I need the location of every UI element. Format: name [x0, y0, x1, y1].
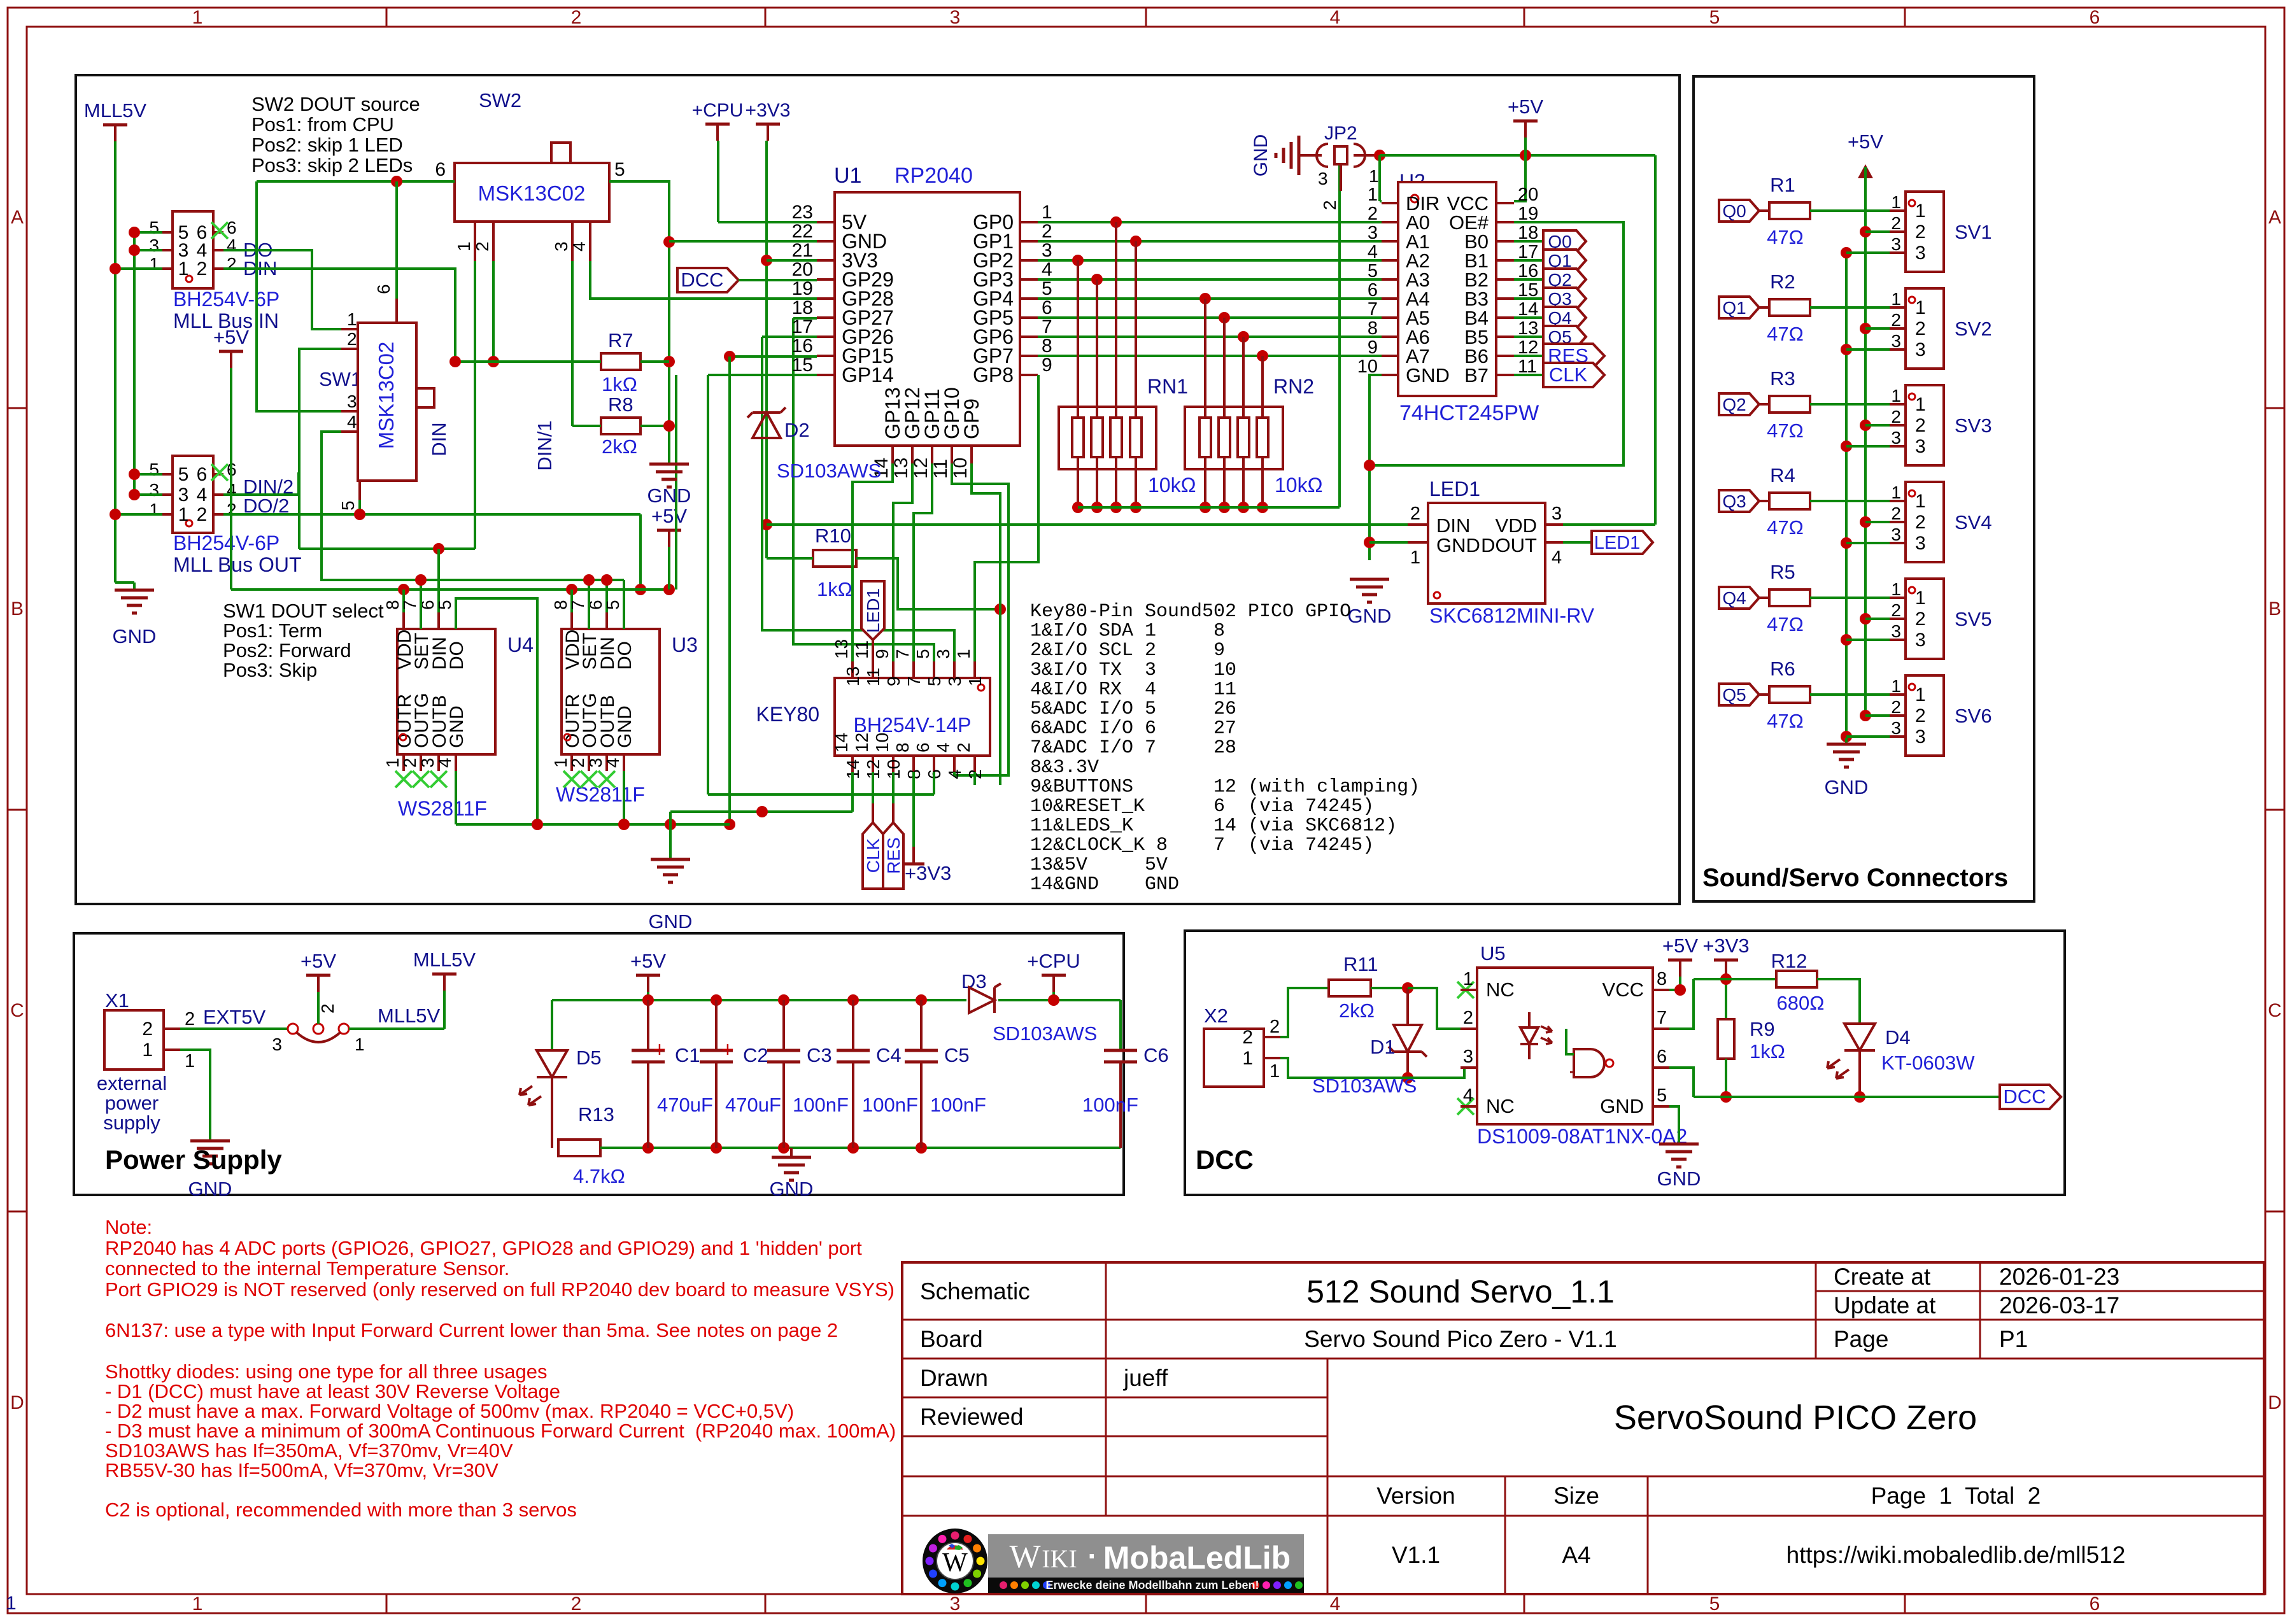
svg-text:1: 1: [1891, 579, 1901, 599]
svg-text:RES: RES: [884, 837, 903, 874]
svg-text:1: 1: [1891, 192, 1901, 212]
svg-text:1: 1: [1368, 185, 1378, 205]
svg-text:5: 5: [1657, 1085, 1667, 1106]
svg-text:R5: R5: [1770, 561, 1795, 583]
svg-text:GND: GND: [647, 484, 691, 507]
svg-text:1: 1: [192, 1593, 203, 1614]
svg-text:4: 4: [347, 412, 357, 432]
svg-text:3: 3: [950, 7, 961, 28]
svg-text:Pos1: from CPU: Pos1: from CPU: [251, 113, 394, 136]
svg-text:5: 5: [149, 460, 159, 479]
svg-text:21: 21: [792, 240, 813, 261]
svg-text:22: 22: [792, 221, 813, 242]
svg-text:Q0: Q0: [1722, 201, 1746, 221]
svg-text:SD103AWS has If=350mA, Vf=370m: SD103AWS has If=350mA, Vf=370mv, Vr=40V: [105, 1439, 513, 1462]
svg-text:47Ω: 47Ω: [1767, 226, 1804, 248]
svg-text:3: 3: [1891, 525, 1901, 544]
svg-text:R6: R6: [1770, 658, 1795, 680]
svg-text:2: 2: [1891, 213, 1901, 233]
svg-text:Schematic: Schematic: [920, 1278, 1030, 1304]
svg-text:3: 3: [1891, 621, 1901, 641]
svg-text:8: 8: [1368, 318, 1378, 339]
svg-text:ServoSound PICO Zero: ServoSound PICO Zero: [1614, 1399, 1977, 1437]
svg-text:5: 5: [1368, 261, 1378, 281]
svg-text:4: 4: [1042, 259, 1052, 280]
svg-text:680Ω: 680Ω: [1777, 992, 1825, 1014]
svg-text:SW1 DOUT select: SW1 DOUT select: [223, 600, 384, 622]
svg-text:2: 2: [400, 758, 420, 768]
svg-text:13&5V 5V: 13&5V 5V: [1030, 854, 1213, 876]
svg-text:1: 1: [454, 241, 474, 251]
svg-text:6: 6: [374, 284, 393, 294]
svg-text:11: 11: [852, 640, 872, 659]
svg-text:CLK: CLK: [863, 838, 883, 873]
svg-text:B7: B7: [1464, 364, 1489, 386]
svg-text:B: B: [11, 598, 24, 619]
svg-text:5: 5: [149, 218, 159, 237]
svg-text:DCC: DCC: [681, 269, 723, 291]
svg-text:6: 6: [197, 464, 208, 485]
svg-text:DIN: DIN: [1436, 514, 1470, 537]
svg-text:4.7kΩ: 4.7kΩ: [573, 1165, 625, 1187]
svg-text:4: 4: [197, 484, 208, 505]
svg-text:+5V: +5V: [1848, 131, 1883, 153]
svg-text:16: 16: [792, 335, 813, 357]
svg-text:DO: DO: [446, 641, 467, 670]
svg-text:3: 3: [272, 1034, 282, 1054]
svg-text:6N137: use a type with Input F: 6N137: use a type with Input Forward Cur…: [105, 1319, 838, 1341]
svg-text:W: W: [1009, 1539, 1040, 1575]
svg-text:2kΩ: 2kΩ: [602, 435, 637, 458]
svg-text:2: 2: [185, 1009, 195, 1029]
svg-text:R12: R12: [1771, 950, 1807, 972]
svg-text:470uF: 470uF: [657, 1094, 713, 1116]
svg-text:11&LEDS_K 14 (via SKC681: 11&LEDS_K 14 (via SKC6812): [1030, 816, 1397, 837]
svg-text:NC: NC: [1486, 978, 1515, 1001]
svg-text:1: 1: [1915, 201, 1926, 222]
svg-text:D: D: [10, 1392, 24, 1413]
svg-text:100nF: 100nF: [862, 1094, 918, 1116]
svg-text:5: 5: [1709, 7, 1720, 28]
svg-text:2: 2: [1915, 415, 1926, 436]
svg-text:3: 3: [1318, 169, 1328, 188]
svg-text:MLL Bus OUT: MLL Bus OUT: [173, 553, 302, 576]
svg-text:4: 4: [1368, 242, 1378, 262]
svg-text:Q5: Q5: [1722, 685, 1746, 705]
svg-text:7: 7: [1368, 299, 1378, 320]
svg-text:Pos3: skip 2 LEDs: Pos3: skip 2 LEDs: [251, 154, 413, 176]
svg-text:Q3: Q3: [1722, 491, 1746, 511]
svg-text:U1: U1: [834, 164, 861, 188]
svg-text:3: 3: [933, 649, 953, 659]
svg-text:+5V: +5V: [1508, 95, 1543, 118]
svg-text:47Ω: 47Ω: [1767, 516, 1804, 539]
svg-text:DO: DO: [614, 641, 635, 670]
svg-text:9&BUTTONS 12 (with clamp: 9&BUTTONS 12 (with clamping): [1030, 776, 1420, 798]
svg-text:1: 1: [355, 1034, 365, 1054]
svg-text:Pos1: Term: Pos1: Term: [223, 619, 322, 642]
svg-text:LED1: LED1: [1429, 477, 1480, 500]
svg-text:2: 2: [954, 742, 973, 752]
svg-text:LED1: LED1: [1594, 533, 1641, 553]
svg-text:D5: D5: [576, 1047, 602, 1069]
svg-text:Q2: Q2: [1722, 395, 1746, 414]
svg-text:SW1: SW1: [319, 368, 362, 390]
svg-text:1: 1: [1891, 483, 1901, 502]
svg-text:EXT5V: EXT5V: [203, 1006, 266, 1028]
svg-text:1: 1: [149, 500, 159, 519]
svg-text:GND: GND: [770, 1178, 814, 1200]
svg-text:47Ω: 47Ω: [1767, 613, 1804, 635]
svg-text:+: +: [721, 1038, 734, 1062]
svg-text:U5: U5: [1480, 942, 1506, 964]
svg-text:+: +: [653, 1038, 666, 1062]
svg-text:MSK13C02: MSK13C02: [374, 342, 398, 449]
svg-text:2: 2: [1463, 1008, 1473, 1028]
svg-text:5: 5: [1709, 1593, 1720, 1614]
svg-text:- D2 must have a max. Forward: - D2 must have a max. Forward Voltage of…: [105, 1400, 794, 1422]
svg-text:2kΩ: 2kΩ: [1339, 999, 1375, 1022]
svg-text:20: 20: [1518, 185, 1538, 205]
svg-text:9: 9: [884, 676, 903, 686]
svg-text:R8: R8: [608, 393, 633, 416]
svg-text:2: 2: [1915, 222, 1926, 243]
svg-text:100nF: 100nF: [793, 1094, 849, 1116]
svg-text:Version: Version: [1376, 1483, 1455, 1509]
svg-text:GND: GND: [649, 910, 693, 933]
svg-text:6: 6: [2090, 7, 2100, 28]
svg-text:R9: R9: [1750, 1018, 1775, 1040]
svg-text:R2: R2: [1770, 271, 1795, 293]
svg-text:3: 3: [178, 484, 189, 505]
svg-text:1: 1: [1891, 386, 1901, 406]
svg-text:V1.1: V1.1: [1392, 1542, 1440, 1568]
svg-text:3: 3: [149, 236, 159, 255]
svg-text:10kΩ: 10kΩ: [1275, 474, 1323, 497]
svg-text:4: 4: [569, 241, 589, 251]
svg-text:GND: GND: [446, 705, 467, 748]
svg-text:3: 3: [1891, 331, 1901, 351]
svg-text:14: 14: [831, 733, 851, 752]
svg-text:·: ·: [1087, 1539, 1097, 1572]
svg-text:2: 2: [142, 1019, 153, 1040]
svg-text:8: 8: [893, 742, 912, 752]
svg-text:https://wiki.mobaledlib.de/mll: https://wiki.mobaledlib.de/mll512: [1786, 1542, 2126, 1568]
svg-text:3: 3: [1915, 726, 1926, 747]
svg-text:external: external: [97, 1072, 167, 1094]
svg-text:10: 10: [872, 733, 892, 752]
svg-text:1: 1: [347, 309, 357, 329]
svg-text:4: 4: [1463, 1085, 1473, 1106]
svg-text:Pos2: Forward: Pos2: Forward: [223, 639, 351, 661]
svg-text:D: D: [2268, 1392, 2282, 1413]
svg-text:NC: NC: [1486, 1095, 1515, 1117]
svg-text:R11: R11: [1343, 953, 1378, 975]
svg-text:100nF: 100nF: [930, 1094, 986, 1116]
svg-text:1: 1: [1915, 297, 1926, 318]
svg-text:SV5: SV5: [1955, 608, 1992, 630]
svg-text:DS1009-08AT1NX-0A2: DS1009-08AT1NX-0A2: [1477, 1125, 1687, 1148]
svg-text:A: A: [11, 207, 24, 228]
svg-text:4&I/O RX 4 11: 4&I/O RX 4 11: [1030, 679, 1236, 700]
svg-text:GND: GND: [1436, 534, 1480, 556]
svg-text:9: 9: [872, 649, 892, 659]
svg-text:C: C: [2268, 1000, 2282, 1021]
svg-text:2: 2: [1368, 204, 1378, 224]
svg-text:VDD: VDD: [1496, 514, 1537, 537]
svg-text:6: 6: [435, 159, 446, 180]
svg-text:Pos3: Skip: Pos3: Skip: [223, 659, 317, 681]
svg-text:2: 2: [1410, 504, 1420, 524]
svg-text:GND: GND: [1406, 364, 1450, 386]
svg-text:R7: R7: [608, 329, 633, 351]
svg-text:Reviewed: Reviewed: [920, 1404, 1023, 1430]
svg-text:GP14: GP14: [842, 364, 894, 386]
svg-text:2: 2: [1242, 1027, 1253, 1048]
svg-text:3: 3: [1042, 240, 1052, 261]
svg-text:1: 1: [1042, 202, 1052, 223]
svg-text:2: 2: [1891, 310, 1901, 330]
svg-text:GP8: GP8: [973, 364, 1014, 386]
svg-text:6&ADC I/O 6 27: 6&ADC I/O 6 27: [1030, 718, 1236, 740]
svg-text:GND: GND: [1600, 1095, 1644, 1117]
svg-text:C4: C4: [876, 1044, 902, 1066]
svg-text:47Ω: 47Ω: [1767, 710, 1804, 732]
svg-text:Size: Size: [1553, 1483, 1599, 1509]
svg-text:R3: R3: [1770, 367, 1795, 390]
svg-text:5: 5: [614, 159, 625, 180]
svg-text:supply: supply: [103, 1112, 160, 1134]
svg-text:B: B: [2268, 598, 2281, 619]
svg-text:+3V3: +3V3: [905, 862, 951, 884]
svg-text:5: 5: [1042, 278, 1052, 299]
svg-text:2: 2: [1270, 1017, 1280, 1037]
svg-text:JP2: JP2: [1324, 123, 1357, 144]
svg-text:+5V: +5V: [651, 505, 687, 527]
svg-text:Q4: Q4: [1722, 588, 1746, 608]
svg-text:3: 3: [1891, 234, 1901, 254]
svg-text:5: 5: [924, 676, 944, 686]
svg-text:Q1: Q1: [1722, 298, 1746, 318]
svg-text:jueff: jueff: [1123, 1365, 1168, 1391]
svg-text:74HCT245PW: 74HCT245PW: [1399, 401, 1539, 425]
svg-text:GND: GND: [614, 705, 635, 748]
svg-text:Shottky diodes: using one type: Shottky diodes: using one type for all t…: [105, 1360, 548, 1383]
svg-text:19: 19: [792, 278, 813, 299]
svg-text:1: 1: [1915, 491, 1926, 512]
svg-text:R4: R4: [1770, 464, 1795, 486]
svg-text:1: 1: [149, 254, 159, 274]
svg-text:5: 5: [338, 500, 358, 511]
svg-text:3: 3: [1463, 1047, 1473, 1067]
svg-text:connected to the internal Temp: connected to the internal Temperature Se…: [105, 1257, 509, 1280]
svg-text:R13: R13: [578, 1103, 614, 1126]
svg-text:RP2040 has 4 ADC ports (GPIO26: RP2040 has 4 ADC ports (GPIO26, GPIO27, …: [105, 1237, 862, 1259]
svg-text:SKC6812MINI-RV: SKC6812MINI-RV: [1429, 604, 1595, 627]
svg-text:7&ADC I/O 7 28: 7&ADC I/O 7 28: [1030, 737, 1236, 759]
svg-text:5: 5: [603, 600, 623, 610]
svg-text:X1: X1: [105, 989, 129, 1012]
svg-text:17: 17: [792, 316, 813, 337]
svg-text:2: 2: [1042, 221, 1052, 242]
svg-text:+3V3: +3V3: [1702, 935, 1749, 957]
svg-text:10&RESET_K 6 (via 74245): 10&RESET_K 6 (via 74245): [1030, 796, 1374, 817]
svg-text:1: 1: [1915, 588, 1926, 609]
svg-text:2: 2: [1915, 512, 1926, 533]
svg-text:10kΩ: 10kΩ: [1148, 474, 1196, 497]
svg-text:KEY80: KEY80: [756, 703, 819, 726]
svg-text:R1: R1: [1770, 174, 1795, 196]
svg-text:C: C: [10, 1000, 24, 1021]
svg-text:13: 13: [831, 639, 851, 659]
svg-text:RP2040: RP2040: [895, 164, 973, 188]
svg-text:C6: C6: [1143, 1044, 1169, 1066]
svg-text:Page 1 Total 2: Page 1 Total 2: [1871, 1483, 2041, 1509]
svg-text:Erwecke deine Modellbahn zum L: Erwecke deine Modellbahn zum Leben!: [1045, 1579, 1259, 1592]
svg-text:RN1: RN1: [1147, 375, 1188, 398]
svg-text:3: 3: [1915, 436, 1926, 457]
svg-text:1kΩ: 1kΩ: [602, 373, 637, 395]
svg-text:2: 2: [227, 254, 237, 274]
svg-text:4: 4: [1330, 7, 1341, 28]
svg-text:SV4: SV4: [1955, 511, 1992, 533]
svg-text:512 Sound Servo_1.1: 512 Sound Servo_1.1: [1306, 1274, 1615, 1310]
svg-text:1: 1: [1891, 289, 1901, 309]
svg-text:18: 18: [792, 297, 813, 318]
svg-text:SV3: SV3: [1955, 414, 1992, 437]
svg-text:C2 is optional, recommended wi: C2 is optional, recommended with more th…: [105, 1499, 577, 1521]
svg-text:Key80-Pin Sound502 PICO GPIO: Key80-Pin Sound502 PICO GPIO: [1030, 601, 1351, 623]
svg-text:GND: GND: [188, 1178, 232, 1200]
svg-text:2: 2: [318, 1003, 337, 1013]
svg-text:MLL5V: MLL5V: [378, 1005, 441, 1027]
svg-text:5: 5: [913, 649, 933, 659]
svg-text:+CPU: +CPU: [1027, 950, 1080, 972]
svg-text:7: 7: [1657, 1008, 1667, 1028]
svg-text:LED1: LED1: [863, 588, 883, 633]
svg-text:+5V: +5V: [1662, 935, 1698, 957]
svg-text:1: 1: [1270, 1061, 1280, 1082]
svg-text:9: 9: [1042, 355, 1052, 376]
svg-text:1: 1: [185, 1051, 195, 1071]
svg-text:8&3.3V: 8&3.3V: [1030, 757, 1213, 779]
svg-text:2026-03-17: 2026-03-17: [1999, 1292, 2119, 1318]
svg-text:MobaLedLib: MobaLedLib: [1103, 1540, 1291, 1576]
svg-text:12: 12: [852, 733, 872, 752]
svg-text:DIN: DIN: [428, 422, 450, 456]
svg-text:3: 3: [347, 392, 357, 411]
svg-text:47Ω: 47Ω: [1767, 323, 1804, 345]
svg-text:1: 1: [1915, 684, 1926, 705]
svg-text:X2: X2: [1204, 1005, 1228, 1027]
svg-text:GP9: GP9: [960, 399, 983, 439]
svg-text:- D1 (DCC) must have at least: - D1 (DCC) must have at least 30V Revers…: [105, 1380, 560, 1402]
svg-text:1&I/O SDA 1 8: 1&I/O SDA 1 8: [1030, 621, 1225, 642]
svg-text:GND: GND: [1825, 776, 1869, 798]
svg-text:D2: D2: [784, 419, 810, 441]
svg-text:SW2 DOUT source: SW2 DOUT source: [251, 93, 420, 115]
svg-text:3: 3: [1915, 533, 1926, 554]
svg-text:3: 3: [1915, 630, 1926, 651]
svg-text:+5V: +5V: [213, 326, 249, 348]
svg-text:MLL5V: MLL5V: [84, 99, 147, 122]
svg-text:3: 3: [950, 1593, 961, 1614]
svg-text:2: 2: [1891, 600, 1901, 620]
svg-text:12&CLOCK_K 8 7 (via 74245): 12&CLOCK_K 8 7 (via 74245): [1030, 835, 1374, 856]
svg-text:5&ADC I/O 5 26: 5&ADC I/O 5 26: [1030, 698, 1236, 720]
svg-text:3: 3: [1891, 428, 1901, 448]
svg-text:+3V3: +3V3: [746, 100, 791, 121]
svg-text:1: 1: [1410, 547, 1420, 568]
svg-text:3: 3: [551, 241, 571, 251]
svg-text:11: 11: [863, 668, 883, 686]
svg-text:6: 6: [2090, 1593, 2100, 1614]
svg-text:CLK: CLK: [1549, 364, 1588, 386]
svg-text:7: 7: [904, 676, 924, 686]
svg-text:1: 1: [142, 1040, 153, 1061]
svg-text:- D3 must have a minimum of 30: - D3 must have a minimum of 300mA Contin…: [105, 1420, 896, 1442]
svg-text:2: 2: [568, 758, 588, 768]
svg-text:power: power: [105, 1092, 159, 1114]
svg-text:6: 6: [913, 742, 933, 752]
svg-text:GND: GND: [113, 625, 157, 647]
svg-text:C5: C5: [944, 1044, 970, 1066]
svg-text:2: 2: [197, 258, 208, 279]
svg-text:Note:: Note:: [105, 1216, 152, 1238]
svg-text:8: 8: [1042, 335, 1052, 357]
svg-text:A: A: [2268, 207, 2281, 228]
svg-text:2: 2: [1320, 200, 1340, 210]
svg-text:1: 1: [1891, 676, 1901, 696]
svg-text:1kΩ: 1kΩ: [817, 578, 852, 600]
svg-text:9: 9: [1368, 337, 1378, 358]
svg-text:6: 6: [1368, 280, 1378, 300]
svg-text:2: 2: [197, 504, 208, 525]
svg-text:SW2: SW2: [479, 89, 521, 111]
svg-text:100nF: 100nF: [1082, 1094, 1138, 1116]
svg-text:2: 2: [1891, 407, 1901, 427]
svg-text:C2: C2: [743, 1044, 768, 1066]
svg-text:SV6: SV6: [1955, 705, 1992, 727]
svg-text:2: 2: [1915, 609, 1926, 630]
svg-text:U4: U4: [507, 633, 534, 656]
svg-text:2: 2: [571, 1593, 582, 1614]
svg-text:GND: GND: [1250, 134, 1271, 177]
svg-text:W: W: [942, 1548, 968, 1578]
svg-text:6: 6: [1042, 297, 1052, 318]
svg-text:3&I/O TX 3 10: 3&I/O TX 3 10: [1030, 660, 1236, 681]
svg-text:5: 5: [435, 600, 455, 610]
svg-text:C3: C3: [807, 1044, 832, 1066]
svg-text:MLL5V: MLL5V: [413, 949, 476, 971]
svg-text:Drawn: Drawn: [920, 1365, 988, 1391]
svg-text:2026-01-23: 2026-01-23: [1999, 1264, 2119, 1290]
svg-text:Board: Board: [920, 1326, 983, 1352]
svg-text:3: 3: [1368, 223, 1378, 243]
svg-text:1kΩ: 1kΩ: [1750, 1040, 1785, 1063]
svg-text:IKI: IKI: [1042, 1544, 1077, 1573]
svg-text:1: 1: [1915, 394, 1926, 415]
svg-text:U3: U3: [672, 633, 698, 656]
svg-text:3: 3: [1915, 339, 1926, 360]
svg-text:WS2811F: WS2811F: [398, 797, 487, 820]
svg-text:7: 7: [568, 600, 588, 610]
svg-text:KT-0603W: KT-0603W: [1881, 1052, 1975, 1074]
svg-text:Page: Page: [1834, 1326, 1888, 1352]
svg-text:Servo Sound Pico Zero - V1.1: Servo Sound Pico Zero - V1.1: [1304, 1326, 1617, 1352]
svg-text:C1: C1: [675, 1044, 700, 1066]
svg-text:2: 2: [347, 329, 357, 349]
